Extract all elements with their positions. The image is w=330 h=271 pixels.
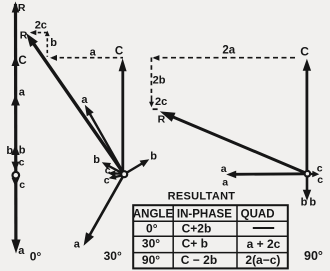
label a (30-deg mid) bbox=[81, 94, 88, 106]
svg-text:a: a bbox=[74, 239, 81, 251]
svg-text:a: a bbox=[18, 245, 25, 257]
svg-text:R: R bbox=[18, 2, 26, 14]
vector b (30-deg, short up-right) bbox=[124, 159, 149, 174]
svg-text:a: a bbox=[90, 47, 97, 59]
vector a (30-deg, mid diagonal) bbox=[85, 105, 124, 174]
svg-text:C+ b: C+ b bbox=[182, 237, 208, 251]
label a (30-deg horizontal measure) bbox=[90, 47, 97, 59]
label 0 degrees bbox=[30, 249, 42, 263]
label 90 degrees bbox=[304, 249, 323, 263]
svg-text:a: a bbox=[81, 94, 88, 106]
svg-text:c: c bbox=[104, 174, 110, 186]
vector a (0-deg, up arrowhead) bbox=[11, 95, 20, 106]
svg-text:c: c bbox=[317, 174, 323, 186]
svg-text:a: a bbox=[19, 86, 26, 98]
label b (right of line) bbox=[19, 145, 26, 157]
svg-text:IN-PHASE: IN-PHASE bbox=[177, 209, 232, 221]
label 2c (90-deg measure) bbox=[155, 96, 167, 108]
label c (90-deg lower) bbox=[317, 174, 323, 186]
svg-text:b: b bbox=[150, 151, 157, 163]
svg-text:C: C bbox=[115, 46, 123, 58]
svg-text:b: b bbox=[301, 197, 308, 209]
label a (30-deg bottom) bbox=[74, 239, 81, 251]
svg-text:30°: 30° bbox=[142, 236, 160, 250]
svg-text:C: C bbox=[18, 55, 26, 67]
table cell C+2b bbox=[182, 222, 212, 236]
svg-text:C: C bbox=[300, 45, 309, 59]
svg-text:2c: 2c bbox=[155, 96, 167, 108]
label c (above node) bbox=[19, 157, 25, 169]
label b (30-deg left) bbox=[93, 154, 100, 166]
vector C (0-deg, up arrowhead) bbox=[12, 56, 20, 67]
svg-text:b: b bbox=[19, 145, 26, 157]
table column divider 1 bbox=[172, 205, 174, 268]
vector b (90-deg, down) bbox=[303, 176, 311, 201]
label C (30-deg) bbox=[115, 46, 123, 58]
label C (90-deg) bbox=[300, 45, 309, 59]
vector c (30-deg, small left upper) bbox=[108, 170, 124, 176]
table cell C+ b bbox=[182, 237, 208, 251]
node: open circle junction 90-deg bbox=[305, 171, 311, 177]
svg-text:2(a−c): 2(a−c) bbox=[245, 253, 280, 267]
label c (90-deg upper) bbox=[317, 162, 323, 174]
label b (30-deg right) bbox=[150, 151, 157, 163]
label b (left of line) bbox=[6, 145, 13, 157]
dashed vertical measure b bbox=[46, 33, 48, 57]
label 30 degrees bbox=[104, 249, 122, 263]
table row line under 30-deg row bbox=[133, 252, 288, 254]
label c (30-deg upper) bbox=[105, 164, 111, 176]
dashed horizontal measure a with left arrow bbox=[50, 55, 123, 61]
label 2a (90-deg measure) bbox=[222, 44, 235, 56]
table header IN-PHASE bbox=[177, 209, 232, 221]
dashed vertical measure 2b bbox=[150, 58, 152, 94]
label a (0-deg) bbox=[19, 86, 26, 98]
label R (90-deg) bbox=[158, 113, 166, 125]
svg-text:b: b bbox=[309, 197, 316, 209]
vector R (30-deg resultant, long diagonal) bbox=[26, 33, 124, 174]
label c (30-deg lower) bbox=[104, 174, 110, 186]
svg-text:90°: 90° bbox=[304, 249, 323, 263]
svg-text:R: R bbox=[158, 113, 166, 125]
svg-text:0°: 0° bbox=[30, 249, 42, 263]
svg-text:b: b bbox=[93, 154, 100, 166]
table cell 90 deg bbox=[142, 253, 160, 267]
label R (0-deg) bbox=[18, 2, 26, 14]
table cell C - 2b bbox=[181, 253, 217, 267]
svg-text:ANGLE: ANGLE bbox=[133, 209, 174, 221]
table header QUAD bbox=[241, 209, 275, 221]
label a (90-deg lower) bbox=[222, 176, 228, 188]
label 2b (90-deg measure) bbox=[153, 75, 166, 87]
svg-text:2c: 2c bbox=[35, 20, 47, 32]
dash between 2c arrow and R tip bbox=[153, 108, 158, 110]
svg-text:a: a bbox=[222, 176, 228, 188]
dashed measure line 2c with left arrow bbox=[30, 30, 47, 35]
label c (below node) bbox=[19, 179, 25, 191]
table cell 2(a-c) bbox=[245, 253, 280, 267]
label a (90-deg upper) bbox=[221, 163, 227, 175]
table cell 30 deg bbox=[142, 236, 160, 250]
label a (bottom of 0-deg line) bbox=[18, 245, 25, 257]
table row line under 0-deg row bbox=[133, 235, 288, 237]
table cell a + 2c bbox=[247, 237, 281, 251]
svg-text:0°: 0° bbox=[146, 221, 158, 235]
table column divider 2 bbox=[236, 205, 238, 268]
table title RESULTANT bbox=[168, 191, 236, 203]
vector b (0-deg, up arrowhead) bbox=[11, 145, 19, 156]
table cell dash (quad of 0 deg) bbox=[253, 227, 274, 229]
vector R (0-deg resultant, up arrowhead) bbox=[12, 2, 20, 13]
table outer border bbox=[133, 205, 288, 268]
vector c (90-deg, small right) bbox=[307, 171, 319, 177]
wire: 0-deg vertical vector line bbox=[14, 4, 18, 241]
label b (30-deg measure) bbox=[50, 37, 57, 49]
dashed horizontal measure 2a with left arrow bbox=[152, 55, 298, 61]
svg-text:c: c bbox=[19, 157, 25, 169]
svg-text:c: c bbox=[19, 179, 25, 191]
table header ANGLE bbox=[133, 209, 174, 221]
vector a (0-deg, large down arrowhead at bottom) bbox=[11, 240, 20, 254]
svg-text:a: a bbox=[221, 163, 227, 175]
vector c (0-deg, down arrowhead above node) bbox=[12, 162, 20, 172]
vector b (30-deg, short up-left) bbox=[102, 162, 124, 174]
svg-text:b: b bbox=[50, 37, 57, 49]
svg-text:a + 2c: a + 2c bbox=[247, 237, 281, 251]
node: open circle junction 30-deg bbox=[121, 171, 127, 177]
label 2c (30-deg measure) bbox=[35, 20, 47, 32]
table cell 0 deg bbox=[146, 221, 158, 235]
label b (90-deg left) bbox=[301, 197, 308, 209]
vector c (0-deg, down arrowhead below node) bbox=[12, 178, 20, 187]
vector a (30-deg, long down-left) bbox=[84, 174, 125, 246]
vector C (30-deg, vertical) bbox=[119, 58, 127, 172]
table row line under header bbox=[133, 220, 288, 222]
vector C (90-deg, vertical) bbox=[303, 59, 311, 172]
svg-text:2a: 2a bbox=[222, 44, 235, 56]
label C (0-deg) bbox=[18, 55, 26, 67]
vector c (30-deg, small left lower) bbox=[109, 174, 125, 180]
label R (30-deg) bbox=[20, 29, 28, 41]
svg-text:RESULTANT: RESULTANT bbox=[168, 191, 236, 203]
svg-text:c: c bbox=[317, 162, 323, 174]
label b (90-deg right) bbox=[309, 197, 316, 209]
svg-text:2b: 2b bbox=[153, 75, 166, 87]
small down arrow measure 2c bbox=[149, 96, 154, 108]
small up arrow at top of b measure bbox=[45, 31, 50, 36]
vector R (90-deg resultant) bbox=[160, 111, 308, 173]
vector a (90-deg, horizontal left) bbox=[226, 171, 307, 179]
svg-text:QUAD: QUAD bbox=[241, 209, 275, 221]
node: open circle junction 0-deg bbox=[13, 172, 20, 179]
svg-text:30°: 30° bbox=[104, 249, 122, 263]
svg-text:R: R bbox=[20, 29, 28, 41]
svg-text:b: b bbox=[6, 145, 13, 157]
svg-text:90°: 90° bbox=[142, 253, 160, 267]
svg-text:C − 2b: C − 2b bbox=[181, 253, 217, 267]
svg-text:C+2b: C+2b bbox=[182, 222, 212, 236]
